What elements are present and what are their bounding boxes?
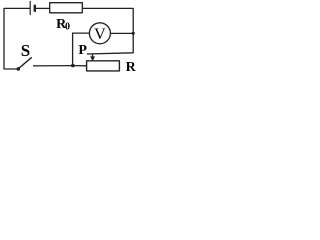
svg-text:V: V [94,26,106,43]
svg-text:R: R [126,60,137,75]
svg-text:0: 0 [65,21,70,32]
svg-text:P: P [78,43,87,58]
svg-text:S: S [21,41,30,60]
